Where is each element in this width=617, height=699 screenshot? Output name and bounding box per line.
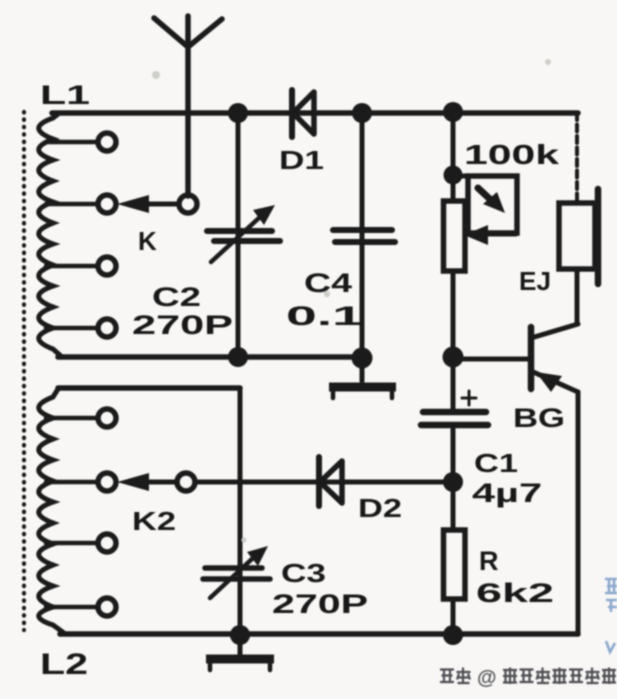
svg-text:@: @ [477,667,497,689]
capacitor C2 (trimmer) [207,205,280,262]
wire C2 branch vertical [236,113,241,357]
svg-text:L2: L2 [40,648,88,681]
node base/C1 [443,347,464,368]
wire bottom rail [60,631,578,637]
capacitor C4 [333,230,395,242]
node top-rail/C2 [228,103,248,123]
antenna [154,16,222,196]
coil core dotted line [22,112,26,630]
diode D1 [292,90,314,137]
node top-rail/C4 [352,103,372,123]
svg-text:100k: 100k [464,139,560,170]
capacitor C1 electrolytic [421,391,488,425]
svg-text:L1: L1 [40,80,90,110]
wire L2 top rail [58,385,240,391]
svg-text:C1: C1 [474,448,518,478]
svg-text:EJ: EJ [519,266,551,296]
resistor R body [444,530,466,599]
blue v mark right edge [606,641,615,652]
potentiometer 100k body [444,201,466,271]
svg-text:0.1: 0.1 [286,301,363,331]
wire K2 to D2 to node [195,480,453,485]
svg-text:K2: K2 [132,506,176,536]
svg-text:C4: C4 [304,268,352,298]
inductor L2 [39,389,116,633]
node bottom rail / C3 / ground [230,625,250,645]
wire right-top dashed drop to EJ [575,113,579,202]
wire pot to node [451,271,456,409]
wire emitter to bottom rail [576,392,581,634]
scan smudges [152,59,551,543]
svg-text:BG: BG [513,403,565,433]
ground (lower) [206,635,274,670]
wire C4 branch vertical [360,113,365,358]
node L1-bottom/C2 [228,347,248,367]
ground (upper) [329,358,396,398]
switch K [117,195,197,213]
svg-text:D1: D1 [279,145,324,175]
potentiometer wiper box [453,176,517,245]
node top-rail/100k [443,102,463,122]
svg-text:4µ7: 4µ7 [472,478,542,508]
node D2/C1/R [443,472,463,492]
wire R to bottom rail [451,599,456,635]
wire EJ to collector [575,269,580,324]
svg-text:270P: 270P [132,310,233,340]
diode D2 [319,457,342,506]
earphone EJ [559,189,598,284]
node pot wiper top [444,166,463,185]
svg-text:D2: D2 [358,493,402,523]
node L1-bottom/C4/ground [352,348,373,369]
svg-text:K: K [138,226,157,256]
transistor BG [453,324,578,392]
wire right branch vertical (top) [451,113,456,201]
inductor L1 [39,114,116,357]
svg-text:C2: C2 [152,282,201,312]
svg-text:270P: 270P [272,589,368,619]
blue partial character right edge [605,579,617,612]
wire C3 branch vertical [238,388,243,635]
node bottom rail / R [443,625,463,645]
capacitor C3 (trimmer) [203,546,270,598]
wire L1 bottom rail [58,354,362,360]
watermark 头条 @电路测修工作室 [440,667,616,689]
svg-text:C3: C3 [281,558,326,588]
svg-text:R: R [479,546,499,576]
wire top rail [52,110,578,116]
wire C1 to node [451,429,456,530]
svg-text:6k2: 6k2 [476,578,554,608]
switch K2 [117,473,195,491]
